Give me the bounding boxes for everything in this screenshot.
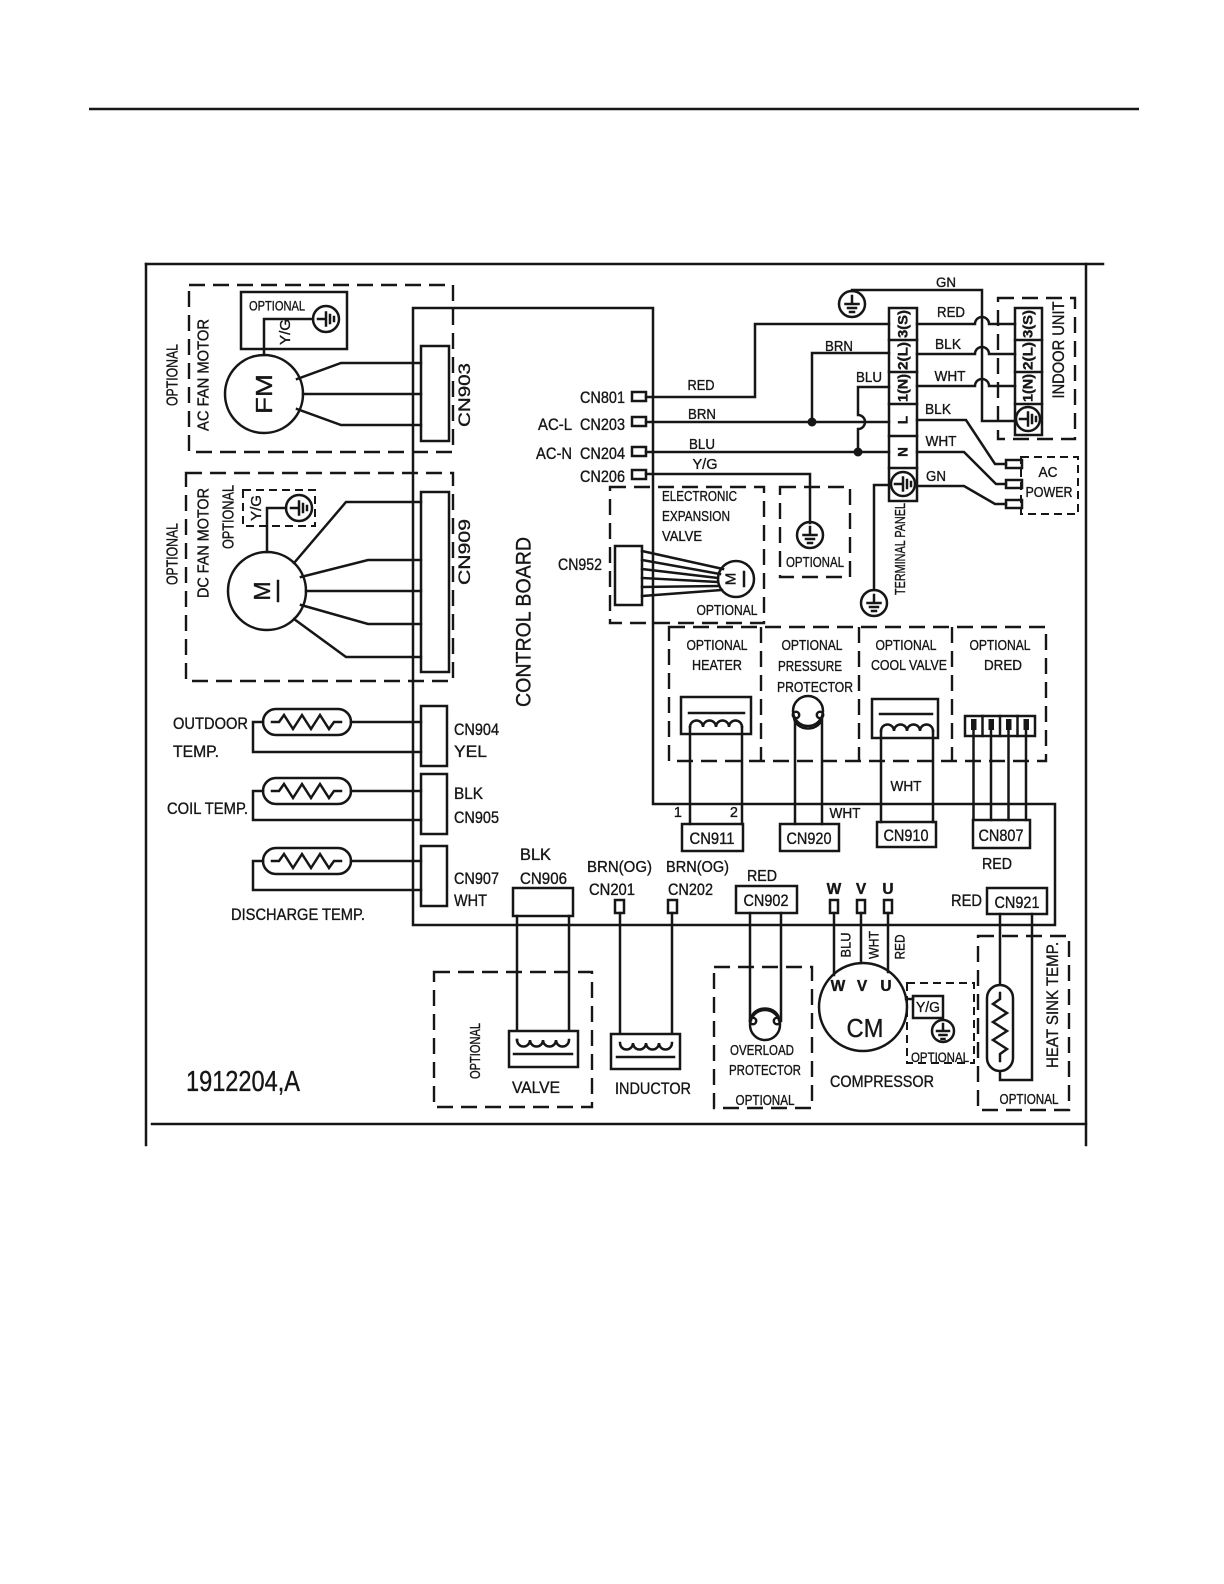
page top rule bbox=[89, 108, 1139, 111]
AC power pin 1 bbox=[1006, 460, 1022, 468]
wire heater pin 2 to CN911 bbox=[741, 727, 744, 824]
svg-text:COIL TEMP.: COIL TEMP. bbox=[167, 800, 248, 818]
svg-text:CONTROL BOARD: CONTROL BOARD bbox=[513, 537, 536, 707]
wire BLU: CN204 to terminal N and 1(N), hop over BRN wire bbox=[646, 387, 889, 452]
connector CN906 bbox=[513, 888, 573, 916]
wire CN902 to overload protector (left) bbox=[749, 913, 752, 1021]
svg-text:TERMINAL PANEL: TERMINAL PANEL bbox=[893, 503, 909, 595]
svg-text:CN201: CN201 bbox=[589, 881, 635, 899]
ground G1 (AC fan Y/G) bbox=[313, 306, 339, 332]
wire CN902 to overload protector (right) bbox=[780, 913, 783, 1021]
svg-text:L: L bbox=[896, 416, 911, 424]
svg-text:GN: GN bbox=[936, 275, 956, 290]
indoor unit terminal strip bbox=[1015, 308, 1042, 435]
svg-text:BLK: BLK bbox=[935, 337, 961, 353]
svg-text:CN910: CN910 bbox=[884, 827, 929, 845]
connector CN911 bbox=[682, 824, 743, 851]
AC fan motor optional enclosure bbox=[189, 285, 453, 452]
svg-text:OVERLOAD: OVERLOAD bbox=[730, 1043, 794, 1059]
svg-text:CN905: CN905 bbox=[454, 809, 499, 827]
terminal panel strip bbox=[889, 308, 917, 501]
svg-text:OPTIONAL: OPTIONAL bbox=[736, 1093, 795, 1109]
heat sink thermistor bbox=[987, 985, 1013, 1071]
valve optional enclosure bbox=[434, 972, 592, 1107]
svg-text:OPTIONAL: OPTIONAL bbox=[970, 638, 1031, 654]
connector CN909 bbox=[421, 492, 449, 672]
svg-text:Y/G: Y/G bbox=[916, 1000, 940, 1016]
svg-text:WHT: WHT bbox=[867, 931, 882, 959]
wire RED: terminal to indoor unit (hop over GN) bbox=[917, 317, 1015, 324]
wire Y/G: CN206 to optional ground bbox=[646, 474, 810, 523]
wire outdoor temp to CN904 (direct) bbox=[351, 721, 421, 724]
DC fan motor optional enclosure bbox=[186, 473, 453, 681]
svg-text:INDUCTOR: INDUCTOR bbox=[615, 1080, 691, 1098]
svg-text:CN921: CN921 bbox=[995, 894, 1040, 912]
compressor pin W bbox=[830, 900, 838, 913]
connector CN807 bbox=[973, 820, 1030, 848]
svg-text:Y/G: Y/G bbox=[693, 457, 718, 473]
optional ground enclosure (near terminal) bbox=[780, 487, 850, 577]
svg-text:CN807: CN807 bbox=[979, 827, 1024, 845]
svg-text:OPTIONAL: OPTIONAL bbox=[165, 344, 182, 406]
svg-text:OPTIONAL: OPTIONAL bbox=[221, 485, 238, 549]
connector CN204 (AC-N) bbox=[632, 447, 646, 456]
connector CN910 bbox=[877, 822, 936, 847]
heater element bbox=[681, 697, 751, 734]
wire compressor to Y/G bbox=[906, 998, 913, 1001]
wire BLK: terminal L to AC power pin 1 bbox=[917, 420, 1006, 464]
svg-text:EXPANSION: EXPANSION bbox=[662, 509, 730, 525]
svg-text:OPTIONAL: OPTIONAL bbox=[786, 555, 844, 571]
wire FM to ground G1 bbox=[264, 319, 313, 355]
wire pressure protector to CN920 (left) bbox=[794, 718, 797, 824]
svg-text:OPTIONAL: OPTIONAL bbox=[687, 638, 748, 654]
svg-text:CN206: CN206 bbox=[580, 468, 625, 486]
svg-text:BLU: BLU bbox=[856, 370, 882, 386]
thermistor coil temp bbox=[263, 778, 351, 804]
svg-text:CN902: CN902 bbox=[744, 892, 789, 910]
junction dot (BRN tap) bbox=[808, 418, 817, 427]
svg-text:OPTIONAL: OPTIONAL bbox=[697, 603, 758, 619]
svg-text:TEMP.: TEMP. bbox=[173, 743, 219, 761]
connector CN904 bbox=[421, 706, 447, 766]
connector CN952 bbox=[615, 546, 642, 605]
connector CN201 bbox=[615, 900, 624, 913]
svg-text:CN909: CN909 bbox=[456, 519, 474, 585]
connector CN202 bbox=[668, 900, 677, 913]
svg-text:Y/G: Y/G bbox=[278, 319, 294, 345]
svg-text:AC: AC bbox=[1039, 465, 1058, 481]
ground G5 (below terminal panel) bbox=[861, 590, 887, 616]
svg-text:BLU: BLU bbox=[839, 933, 854, 958]
svg-text:M: M bbox=[249, 581, 275, 600]
wires CN952 to EEV motor bbox=[642, 551, 723, 596]
electronic expansion valve enclosure bbox=[610, 487, 764, 623]
svg-text:COMPRESSOR: COMPRESSOR bbox=[830, 1073, 934, 1091]
ground G2 (DC fan Y/G) bbox=[286, 495, 312, 521]
svg-text:CN920: CN920 bbox=[787, 830, 832, 848]
svg-text:VALVE: VALVE bbox=[662, 529, 702, 545]
wires M to CN909 bbox=[294, 502, 421, 657]
wire discharge temp to CN907 (direct) bbox=[351, 860, 421, 863]
svg-text:BLK: BLK bbox=[454, 785, 483, 803]
svg-text:OPTIONAL: OPTIONAL bbox=[911, 1050, 969, 1065]
wire BRN: CN203 to terminal L and 2(L) bbox=[646, 353, 889, 422]
wire cool valve to CN910 (left) bbox=[880, 731, 883, 822]
valve coil bbox=[509, 1031, 578, 1067]
AC POWER source box bbox=[1021, 457, 1078, 514]
compressor CM bbox=[819, 963, 907, 1051]
AC power pin 3 bbox=[1006, 500, 1022, 508]
svg-text:VALVE: VALVE bbox=[512, 1079, 560, 1097]
wire heater pin 1 to CN911 bbox=[689, 727, 692, 824]
DRED connector block bbox=[965, 716, 1035, 736]
connector CN206 bbox=[632, 470, 646, 479]
overload protector enclosure bbox=[714, 967, 812, 1108]
wire WHT: terminal N to AC power pin 2 bbox=[917, 452, 1006, 484]
svg-text:INDOOR UNIT: INDOOR UNIT bbox=[1050, 302, 1068, 399]
connector CN905 bbox=[421, 774, 447, 834]
connector CN203 (AC-L) bbox=[632, 417, 646, 426]
svg-text:Y/G: Y/G bbox=[249, 495, 265, 521]
inductor bbox=[611, 1034, 680, 1069]
svg-text:1: 1 bbox=[674, 805, 682, 821]
svg-text:COOL VALVE: COOL VALVE bbox=[871, 658, 947, 674]
svg-text:RED: RED bbox=[747, 868, 777, 885]
wire coil temp to CN905 (loop) bbox=[253, 791, 421, 820]
svg-text:BRN(OG): BRN(OG) bbox=[666, 859, 729, 876]
connector CN902 bbox=[736, 886, 797, 913]
options enclosure (heater / pressure protector / cool valve / DRED) bbox=[669, 627, 1046, 761]
wire BLK: terminal to indoor unit (hop over GN) bbox=[917, 347, 1015, 354]
svg-text:HEATER: HEATER bbox=[692, 658, 742, 674]
svg-text:DC FAN MOTOR: DC FAN MOTOR bbox=[196, 488, 213, 598]
svg-text:CN801: CN801 bbox=[580, 389, 625, 407]
svg-text:POWER: POWER bbox=[1026, 485, 1073, 501]
svg-text:W: W bbox=[831, 978, 846, 995]
motor M (DC fan) bbox=[228, 552, 306, 630]
svg-text:DISCHARGE TEMP.: DISCHARGE TEMP. bbox=[231, 906, 365, 924]
svg-text:V: V bbox=[857, 978, 868, 995]
wire CN906 to valve (right) bbox=[568, 916, 571, 1040]
svg-text:1912204,A: 1912204,A bbox=[186, 1066, 301, 1098]
svg-text:RED: RED bbox=[982, 856, 1012, 873]
svg-text:CN903: CN903 bbox=[456, 363, 474, 427]
svg-text:W: W bbox=[827, 881, 842, 898]
svg-text:BRN(OG): BRN(OG) bbox=[587, 859, 652, 876]
svg-text:CN904: CN904 bbox=[454, 721, 499, 739]
svg-text:OPTIONAL: OPTIONAL bbox=[468, 1023, 484, 1079]
wire M to ground G2 bbox=[267, 508, 286, 552]
indoor unit enclosure bbox=[998, 298, 1075, 439]
svg-text:BLK: BLK bbox=[520, 846, 551, 864]
svg-text:N: N bbox=[896, 447, 911, 457]
svg-text:1(N): 1(N) bbox=[896, 374, 911, 402]
svg-text:U: U bbox=[882, 881, 893, 898]
wire CN201 to inductor bbox=[619, 913, 622, 1043]
cool valve coil bbox=[872, 699, 938, 738]
svg-text:BLK: BLK bbox=[925, 402, 951, 418]
svg-text:2(L): 2(L) bbox=[1021, 342, 1036, 370]
svg-text:OPTIONAL: OPTIONAL bbox=[1000, 1092, 1059, 1108]
wire W to compressor bbox=[833, 913, 836, 975]
ground G3 (optional, Y/G from CN206) bbox=[797, 522, 823, 548]
svg-text:WHT: WHT bbox=[926, 434, 957, 450]
wire WHT: terminal to indoor unit (hop over GN) bbox=[917, 379, 1015, 386]
svg-text:WHT: WHT bbox=[935, 369, 966, 385]
svg-text:AC-N: AC-N bbox=[536, 445, 572, 463]
junction dot (BLU tap) bbox=[854, 448, 863, 457]
wire coil temp to CN905 (direct) bbox=[351, 790, 421, 793]
compressor Y/G enclosure bbox=[907, 983, 974, 1063]
compressor pin V bbox=[857, 900, 865, 913]
svg-text:CN907: CN907 bbox=[454, 870, 499, 888]
svg-text:WHT: WHT bbox=[454, 892, 487, 910]
svg-text:RED: RED bbox=[951, 892, 982, 910]
svg-text:BRN: BRN bbox=[825, 339, 853, 355]
svg-text:ELECTRONIC: ELECTRONIC bbox=[662, 489, 737, 505]
svg-text:OUTDOOR: OUTDOOR bbox=[173, 715, 248, 733]
thermistor discharge temp bbox=[263, 848, 351, 874]
svg-text:RED: RED bbox=[688, 378, 715, 394]
AC power pin 2 bbox=[1006, 480, 1022, 488]
wire CN202 to inductor bbox=[671, 913, 674, 1043]
ground G6 (compressor) bbox=[932, 1020, 954, 1042]
svg-text:BLU: BLU bbox=[689, 437, 715, 453]
wire discharge temp to CN907 (loop) bbox=[253, 861, 421, 890]
svg-text:HEAT SINK TEMP.: HEAT SINK TEMP. bbox=[1044, 942, 1062, 1068]
connector CN907 bbox=[421, 846, 447, 906]
svg-text:PRESSURE: PRESSURE bbox=[778, 659, 842, 675]
wire RED: CN801 to terminal 3(S) bbox=[646, 324, 889, 397]
svg-text:2: 2 bbox=[730, 805, 738, 821]
svg-text:RED: RED bbox=[937, 305, 965, 321]
svg-text:PROTECTOR: PROTECTOR bbox=[729, 1063, 801, 1079]
svg-text:M: M bbox=[723, 573, 740, 586]
svg-text:DRED: DRED bbox=[984, 658, 1022, 674]
diagram border frame bbox=[146, 264, 1103, 1145]
wires DRED to CN807 bbox=[974, 730, 1027, 820]
DRED pins bbox=[971, 719, 1029, 730]
svg-text:WHT: WHT bbox=[891, 779, 922, 795]
svg-text:YEL: YEL bbox=[454, 743, 487, 761]
wire CN921 to heat sink thermistor (right) bbox=[1000, 914, 1032, 1080]
wire V to compressor bbox=[860, 913, 863, 963]
optional Y/G ground box (AC fan) bbox=[241, 292, 347, 349]
svg-text:CN906: CN906 bbox=[520, 870, 567, 888]
svg-text:3(S): 3(S) bbox=[896, 310, 911, 338]
svg-text:CN911: CN911 bbox=[690, 830, 735, 848]
svg-text:OPTIONAL: OPTIONAL bbox=[165, 523, 182, 585]
svg-text:2(L): 2(L) bbox=[896, 342, 911, 370]
wire ground G5 to terminal panel bbox=[874, 485, 889, 590]
Y/G dashed box (DC fan) bbox=[243, 490, 315, 526]
svg-text:1(N): 1(N) bbox=[1021, 374, 1036, 402]
connector CN920 bbox=[780, 824, 839, 851]
connector CN903 bbox=[421, 346, 449, 441]
overload protector bbox=[750, 1009, 780, 1040]
svg-text:AC FAN MOTOR: AC FAN MOTOR bbox=[196, 319, 213, 431]
EEV motor M bbox=[718, 561, 754, 597]
svg-text:FM: FM bbox=[251, 374, 277, 414]
wire outdoor temp to CN904 (loop) bbox=[253, 722, 421, 752]
svg-text:BRN: BRN bbox=[688, 407, 716, 423]
svg-text:GN: GN bbox=[926, 469, 946, 485]
svg-text:OPTIONAL: OPTIONAL bbox=[249, 299, 305, 314]
svg-text:WHT: WHT bbox=[830, 806, 861, 822]
svg-text:AC-L: AC-L bbox=[538, 416, 572, 434]
wire GN: ground G4 to indoor unit ground bbox=[852, 290, 1016, 421]
svg-text:CN952: CN952 bbox=[558, 556, 602, 574]
svg-text:U: U bbox=[880, 978, 891, 995]
wires FM to CN903 bbox=[297, 363, 421, 425]
ground G4 (above terminal panel) bbox=[839, 291, 865, 317]
thermistor outdoor temp bbox=[263, 709, 351, 735]
svg-text:CN203: CN203 bbox=[580, 416, 625, 434]
wire CN906 to valve (left) bbox=[516, 916, 519, 1040]
svg-text:OPTIONAL: OPTIONAL bbox=[782, 638, 843, 654]
compressor pin U bbox=[884, 900, 892, 913]
wire U to compressor bbox=[887, 913, 890, 972]
wire GN: terminal ground to AC power pin 3 bbox=[917, 486, 1006, 504]
svg-text:CN204: CN204 bbox=[580, 445, 625, 463]
svg-text:V: V bbox=[856, 881, 867, 898]
pressure protector bbox=[793, 696, 823, 729]
wire CN921 to heat sink thermistor (left) bbox=[999, 914, 1002, 997]
svg-text:PROTECTOR: PROTECTOR bbox=[777, 680, 853, 696]
svg-text:CN202: CN202 bbox=[668, 881, 713, 899]
svg-text:CM: CM bbox=[847, 1013, 884, 1043]
connector CN921 bbox=[987, 888, 1047, 914]
motor FM bbox=[225, 355, 303, 433]
ground (indoor unit cell) bbox=[1016, 407, 1040, 431]
wire pressure protector to CN920 (right) bbox=[821, 718, 824, 824]
heat sink temp enclosure bbox=[978, 936, 1069, 1110]
svg-text:RED: RED bbox=[893, 934, 908, 959]
wire cool valve to CN910 (right) bbox=[932, 731, 935, 822]
connector CN801 bbox=[632, 392, 646, 401]
ground (terminal strip cell) bbox=[891, 472, 915, 496]
label Y/G (boxed) bbox=[913, 996, 943, 1018]
svg-text:OPTIONAL: OPTIONAL bbox=[876, 638, 937, 654]
control board U1 outline bbox=[413, 308, 1055, 925]
svg-text:3(S): 3(S) bbox=[1021, 310, 1036, 338]
